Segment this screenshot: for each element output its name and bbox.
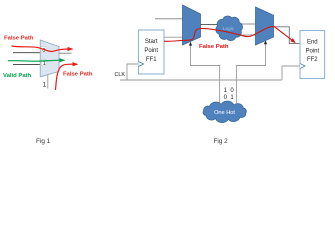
- false path bypass arrow (fig1): [56, 62, 79, 90]
- select bus mux1 to one-hot: [191, 44, 220, 103]
- wire input 0 (fig1): [13, 52, 42, 54]
- svg-text:False Path: False Path: [63, 71, 93, 77]
- clock pin FF1: [139, 62, 144, 67]
- wire false path through mux (fig1): [12, 46, 74, 52]
- wire clk to FF1: [127, 64, 139, 80]
- ff End Point FF2: [300, 31, 325, 79]
- svg-text:Logic: Logic: [223, 26, 235, 31]
- svg-text:Valid Path: Valid Path: [3, 73, 32, 79]
- pin label 0 (fig1): [41, 47, 46, 54]
- svg-text:FF2: FF2: [307, 57, 318, 63]
- wire cloud to mux2 lower input: [238, 34, 256, 36]
- wire input 1 (fig1): [13, 64, 42, 66]
- one hot cloud: [203, 101, 246, 123]
- wire clk bus: [120, 79, 282, 81]
- svg-text:Fig 2: Fig 2: [214, 138, 229, 145]
- svg-text:Point: Point: [305, 48, 319, 54]
- svg-text:FF1: FF1: [146, 57, 157, 63]
- wire FF1 Q to mux1: [164, 36, 183, 38]
- svg-text:False Path: False Path: [4, 36, 34, 42]
- ff Start Point FF1: [139, 30, 165, 74]
- svg-text:1: 1: [43, 61, 46, 67]
- svg-text:Fig 1: Fig 1: [36, 138, 51, 145]
- svg-text:1: 1: [43, 82, 47, 89]
- svg-text:False Path: False Path: [199, 44, 229, 50]
- select arrow mux2: [264, 40, 267, 44]
- svg-text:Start: Start: [145, 39, 158, 45]
- svg-text:CLK: CLK: [115, 72, 126, 78]
- mux M1 (fig1): [40, 40, 59, 77]
- mux2 (fig2): [256, 7, 274, 45]
- select bus mux2 to one-hot: [237, 44, 266, 103]
- wire false path fig2: [164, 27, 296, 44]
- svg-text:Point: Point: [144, 48, 158, 54]
- select wire (fig1): [47, 75, 49, 89]
- pin label 1 (fig1): [41, 60, 46, 67]
- logic cloud: [216, 16, 243, 41]
- mux1 (fig2): [183, 5, 201, 45]
- wire input A to mux1: [155, 18, 183, 20]
- svg-text:One Hot: One Hot: [214, 110, 235, 116]
- wire valid path through mux (fig1): [8, 58, 66, 62]
- svg-text:End: End: [307, 40, 318, 46]
- clock pin FF2: [300, 64, 305, 69]
- select arrow mux1: [189, 42, 192, 46]
- wire mux2 out to FF2: [274, 27, 301, 44]
- wire clk to FF2: [282, 66, 300, 80]
- wire mux1 out to mux2: [201, 23, 257, 25]
- wire mux output (fig1): [59, 52, 72, 54]
